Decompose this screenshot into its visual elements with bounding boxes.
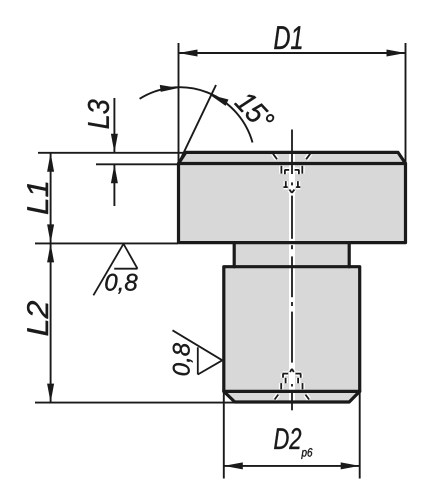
L2 dimension line [50,243,52,402]
label r08a: "0,8" [105,274,137,294]
L3 lower arrow (points up) [111,164,118,183]
L1 dimension line [50,153,52,244]
label L2: "L2" [27,301,48,336]
L3 dimension line lower [113,164,115,206]
part outline (heavy) [179,152,406,402]
D1 left extension [178,43,180,164]
label L3: "L3" [88,100,109,129]
dimension lines [51,53,406,466]
surface finish symbol lower (0,8 rotated) [173,330,223,374]
L1 top arrow [47,153,54,172]
neck left edge [233,243,236,267]
D2 right extension [359,391,361,479]
head fill [179,152,406,242]
neck right edge [348,243,351,267]
hidden thread hole halos [273,154,310,400]
centerline (dash-dot segments) [291,130,293,411]
D2 dimension line [224,465,360,467]
thin lines: extension lines [35,43,406,479]
D1 right arrow [387,50,406,57]
label deg15: "15°" [234,90,276,133]
L2 bottom arrow [47,384,54,403]
hidden thread hole (top) dashes [273,154,310,193]
angle dimension arc [140,87,253,142]
L1 bottom arrow [47,224,54,243]
D2 left extension [223,391,225,479]
D1 right extension [405,43,407,164]
D2 left arrow [224,462,243,469]
L3 dimension line upper [113,98,115,153]
shank outline [224,267,360,402]
D2 right arrow [341,462,360,469]
shank bottom extension (L2) [35,402,295,404]
D1 left arrow [179,50,198,57]
hidden thread hole (bottom) dashes [275,369,310,400]
surface finish symbol upper (0,8) [93,244,137,295]
centerline white halo [289,130,295,411]
label p6: "p6" [301,448,312,459]
angle arc arrow at 15deg line [210,95,229,106]
head bottom extension (L1/L2) [35,242,178,244]
15 degree reference line [179,85,217,164]
shank bottom chamfer edge line [224,390,360,393]
label r08b: "0,8" [173,343,193,375]
arrowheads [47,50,405,470]
head chamfer edge line [179,162,406,165]
label L1: "L1" [27,183,48,214]
angle arc arrow at vertical line [160,85,179,92]
neck (undercut groove) fill [234,243,349,267]
head top extension (L1/L3) [38,152,186,154]
L2 top arrow [47,243,54,262]
L3 lower extension [96,163,178,165]
L3 upper arrow (points down) [111,134,118,153]
label D2: "D2" [274,428,301,449]
D1 dimension line [179,52,406,54]
shank fill [224,267,360,402]
label D1: "D1" [274,26,301,49]
head outline [179,152,406,242]
